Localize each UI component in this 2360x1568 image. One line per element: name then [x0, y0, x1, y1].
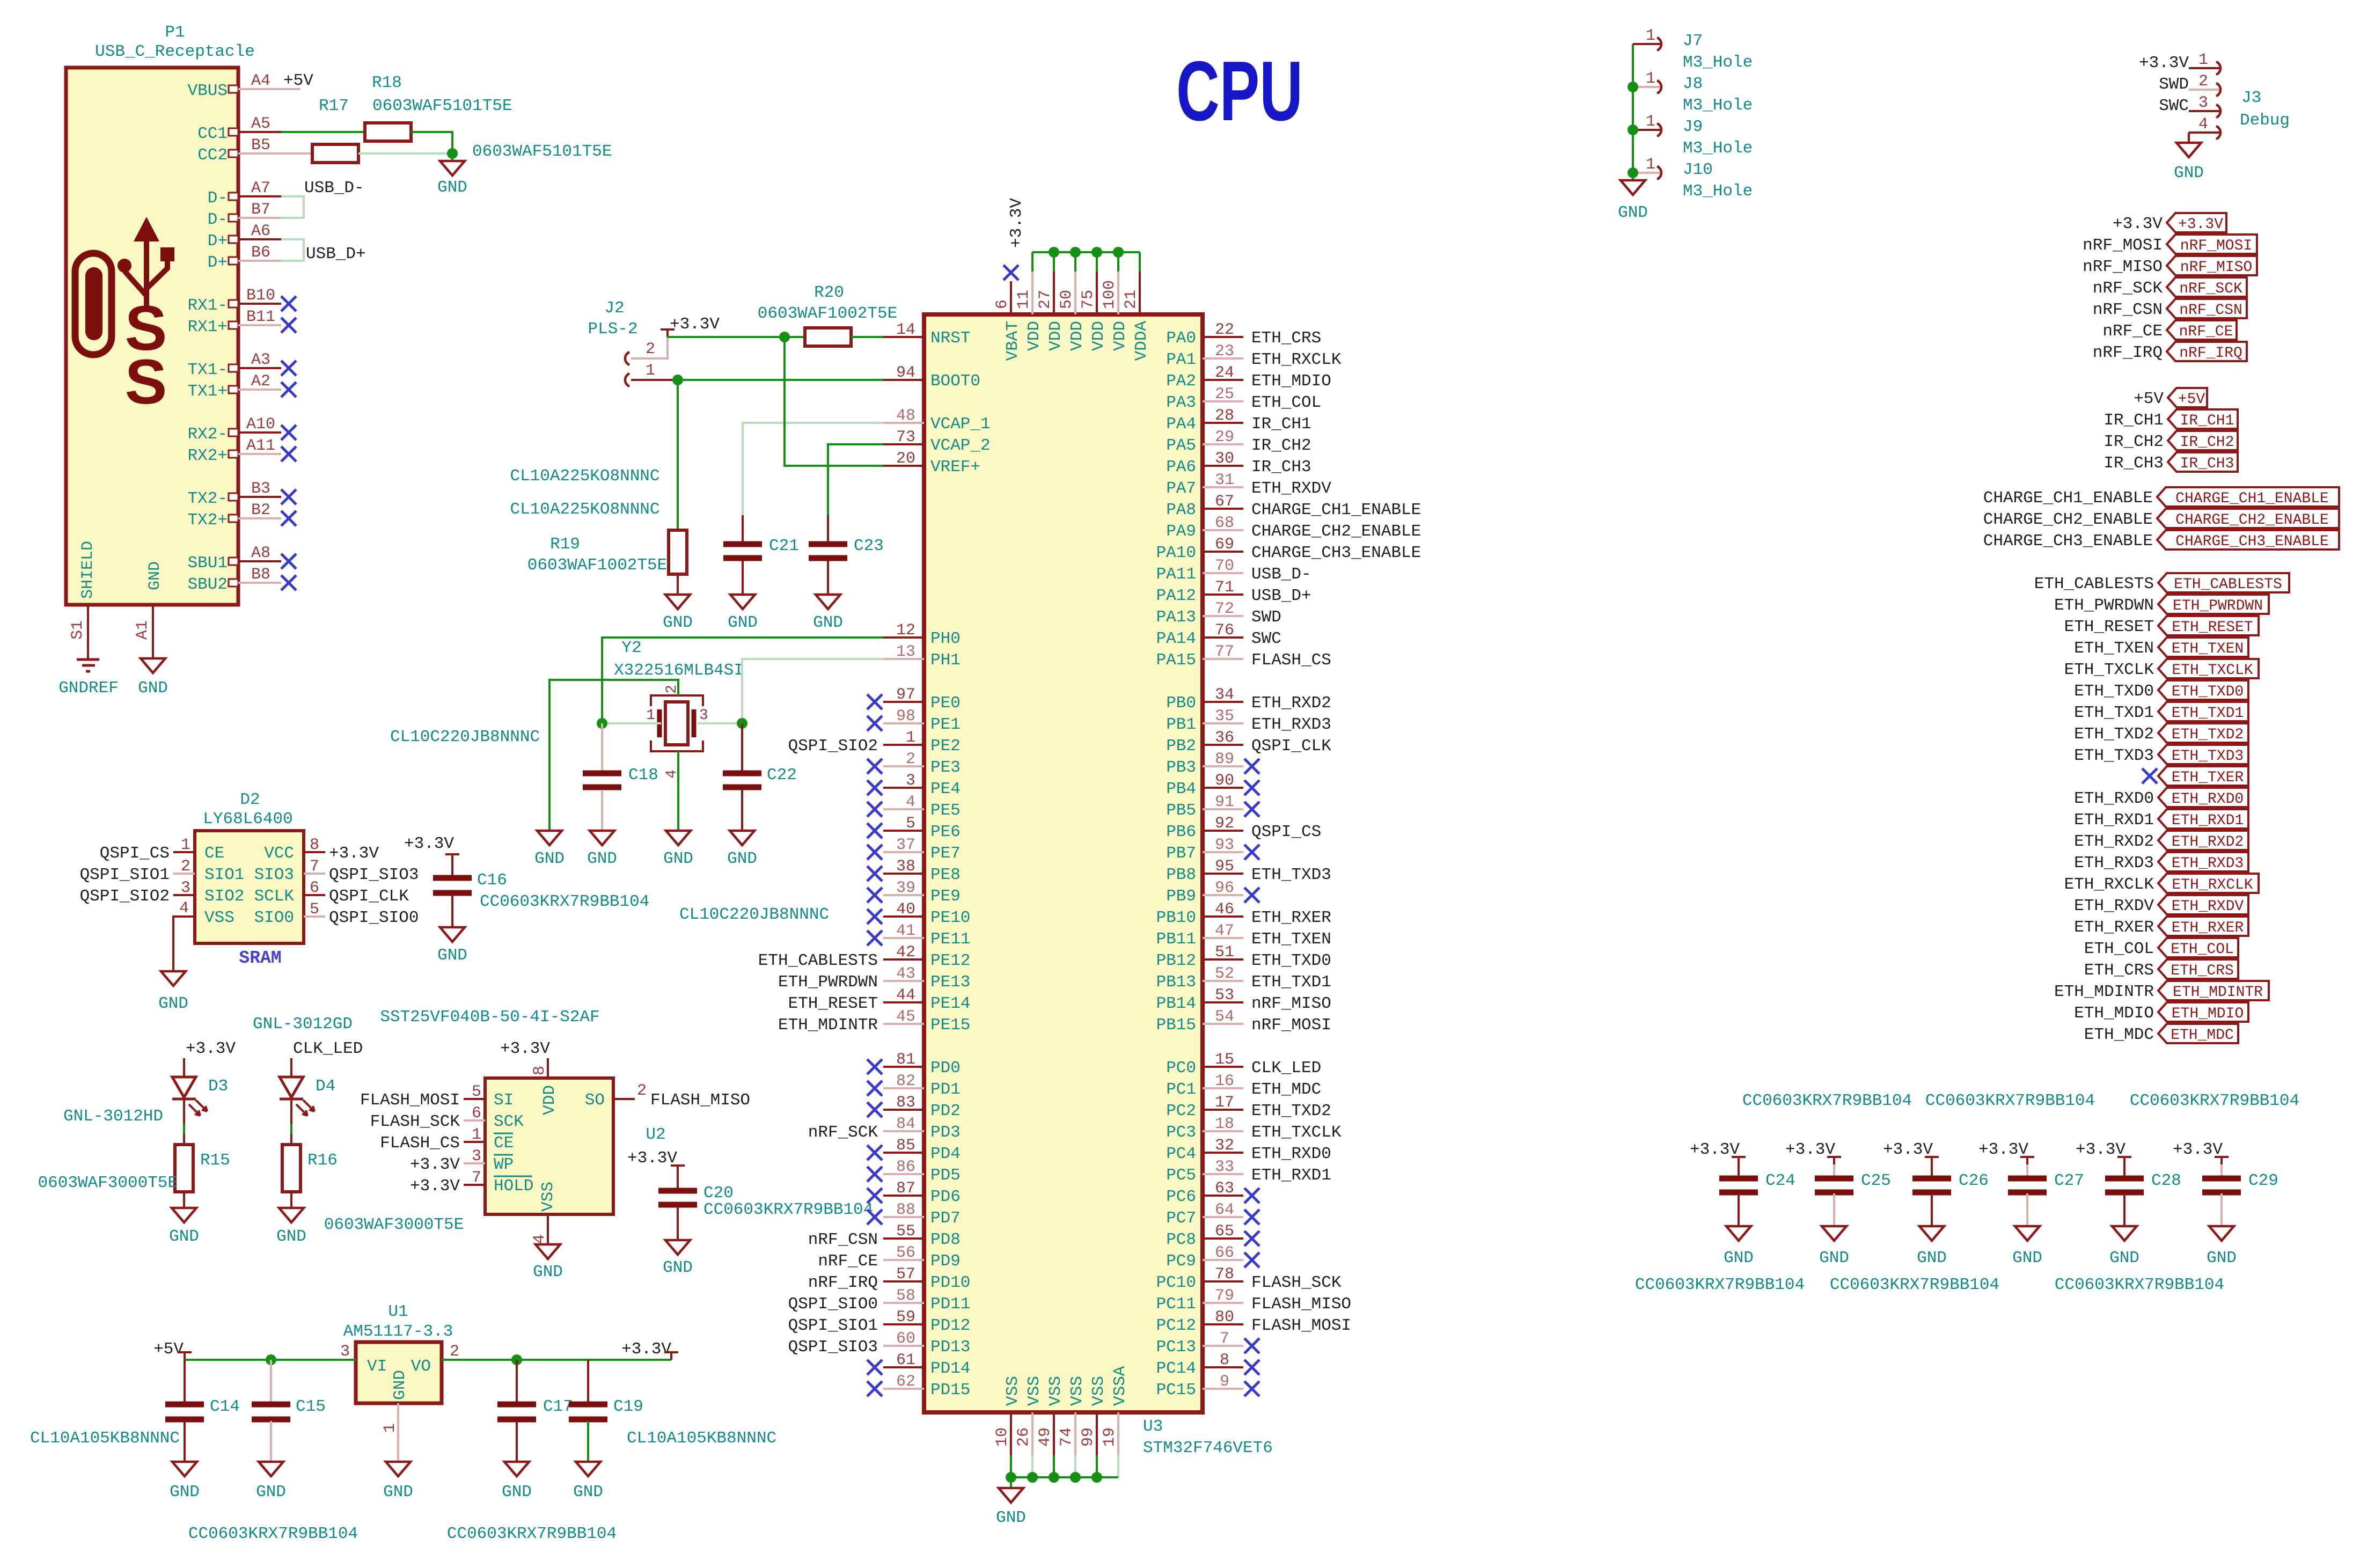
U3 pin 95 PB8 [1203, 873, 1243, 875]
hierarchical label ETH_CABLESTS [2158, 573, 2289, 592]
svg-text:PD14: PD14 [930, 1359, 970, 1378]
capacitor C28 [2105, 1176, 2144, 1182]
svg-text:ETH_RXDV: ETH_RXDV [1251, 479, 1331, 498]
svg-text:CC0603KRX7R9BB104: CC0603KRX7R9BB104 [1635, 1276, 1805, 1294]
svg-text:R18: R18 [372, 74, 402, 92]
U3 pin 54 PB15 [1203, 1023, 1243, 1025]
P1 pin A10 RX2- [229, 429, 238, 436]
U3 pin 85 PD4 [883, 1152, 924, 1154]
hierarchical label ETH_RXD2 [2158, 831, 2248, 850]
svg-text:65: 65 [1215, 1222, 1234, 1241]
D2 pin 2 SIO1 [173, 873, 195, 875]
svg-text:72: 72 [1215, 600, 1234, 618]
U3 pin 56 PD9 [883, 1259, 924, 1261]
U3 pin 68 PA9 [1203, 529, 1243, 531]
svg-text:+3.3V: +3.3V [186, 1039, 236, 1058]
svg-text:FLASH_MISO: FLASH_MISO [1251, 1295, 1351, 1314]
wire C28 to ground [2123, 1193, 2126, 1226]
junction VSS bus 2044 [1091, 1472, 1102, 1483]
svg-text:C24: C24 [1765, 1171, 1795, 1190]
no-connect X at ETH_TXER [2142, 768, 2157, 783]
P1 pin A6 D+ [229, 236, 238, 243]
svg-text:78: 78 [1215, 1265, 1234, 1284]
svg-text:ETH_RXCLK: ETH_RXCLK [1251, 350, 1342, 369]
svg-text:PE13: PE13 [930, 973, 970, 992]
U3 pin 35 PB1 [1203, 722, 1243, 724]
svg-text:GND: GND [587, 849, 617, 868]
U3 pin 52 PB13 [1203, 980, 1243, 982]
connector J7 M3_Hole [1633, 43, 1662, 45]
ground GNDREF symbol [77, 658, 99, 661]
ground GND below C14 [172, 1462, 197, 1476]
capacitor C21 [723, 541, 762, 547]
svg-text:68: 68 [1215, 514, 1234, 532]
svg-text:PC14: PC14 [1156, 1359, 1196, 1378]
hierarchical label CHARGE_CH1_ENABLE [2157, 487, 2339, 507]
svg-text:PC1: PC1 [1166, 1080, 1196, 1099]
svg-text:27: 27 [1036, 290, 1054, 309]
svg-text:nRF_CE: nRF_CE [2102, 322, 2163, 341]
svg-text:IR_CH1: IR_CH1 [2180, 413, 2234, 429]
svg-text:SWD: SWD [2159, 75, 2189, 94]
U3 pin 64 PC7 [1203, 1216, 1243, 1218]
svg-text:D4: D4 [316, 1077, 335, 1096]
svg-text:CC1: CC1 [197, 124, 228, 143]
svg-text:ETH_RXD1: ETH_RXD1 [2074, 811, 2154, 830]
svg-text:PE1: PE1 [930, 715, 961, 734]
hierarchical label CHARGE_CH3_ENABLE [2157, 530, 2339, 549]
svg-text:8: 8 [1220, 1351, 1229, 1369]
svg-text:ETH_RESET: ETH_RESET [788, 994, 878, 1013]
U3 pin 29 PA5 [1203, 443, 1243, 445]
svg-text:USB_D-: USB_D- [1251, 565, 1311, 584]
svg-text:SWD: SWD [1251, 608, 1281, 627]
U3 pin 16 PC1 [1203, 1087, 1243, 1089]
hierarchical label CHARGE_CH2_ENABLE [2157, 509, 2339, 528]
hierarchical label nRF_MOSI [2167, 235, 2257, 254]
LED D3 [172, 1077, 196, 1097]
svg-text:PD13: PD13 [930, 1338, 970, 1357]
svg-text:R20: R20 [814, 283, 844, 302]
svg-text:2: 2 [181, 858, 190, 876]
svg-text:R16: R16 [307, 1151, 338, 1170]
svg-text:+3.3V: +3.3V [670, 315, 720, 334]
svg-text:C18: C18 [628, 766, 658, 785]
wire CLK_LED to D4 [290, 1058, 292, 1077]
svg-text:USB_C_Receptacle: USB_C_Receptacle [95, 42, 255, 61]
U3 pin 17 PC2 [1203, 1109, 1243, 1111]
svg-text:37: 37 [896, 836, 915, 854]
svg-text:USB_D+: USB_D+ [1251, 587, 1311, 605]
U3 pin 84 PD3 [883, 1130, 924, 1132]
svg-text:CLK_LED: CLK_LED [293, 1039, 363, 1058]
U3 pin 74 VSS [1074, 1412, 1076, 1455]
svg-text:C26: C26 [1959, 1171, 1989, 1190]
svg-text:0603WAF5101T5E: 0603WAF5101T5E [472, 142, 612, 161]
U3 pin 32 PC4 [1203, 1152, 1243, 1154]
P1 pin B10 RX1- [229, 300, 238, 307]
svg-text:PC7: PC7 [1166, 1209, 1196, 1228]
ground GND below P1 [141, 658, 165, 673]
svg-text:+3.3V: +3.3V [329, 844, 379, 863]
U3 pin 86 PD5 [883, 1173, 924, 1175]
U3 pin 79 PC11 [1203, 1302, 1243, 1304]
wire PH0 to crystal pin1 [602, 638, 883, 723]
U3 pin 11 VDD [1031, 272, 1034, 314]
svg-text:nRF_MISO: nRF_MISO [1251, 994, 1331, 1013]
svg-text:QSPI_CS: QSPI_CS [1251, 823, 1321, 841]
svg-text:PE8: PE8 [930, 866, 961, 884]
svg-text:41: 41 [896, 922, 915, 940]
ground GND crystal pin2 [537, 831, 562, 845]
svg-text:ETH_MDIO: ETH_MDIO [1251, 372, 1331, 391]
svg-text:nRF_MISO: nRF_MISO [2083, 258, 2163, 276]
svg-text:16: 16 [1215, 1072, 1234, 1090]
junction VSS bus 1884 [1006, 1472, 1016, 1483]
svg-text:RX2+: RX2+ [188, 446, 228, 465]
wire crystal pin4 to ground [677, 751, 679, 831]
svg-text:PB1: PB1 [1166, 715, 1196, 734]
capacitor C16 [433, 875, 472, 881]
svg-text:ETH_RXCLK: ETH_RXCLK [2172, 877, 2253, 893]
svg-text:IR_CH3: IR_CH3 [2104, 454, 2164, 473]
P1 pin A11 RX2+ [229, 450, 238, 458]
wire USB_D- loop [281, 196, 304, 218]
ground GND below J3 [2176, 143, 2201, 157]
svg-text:PA3: PA3 [1166, 393, 1196, 412]
ground GND below D2 [161, 971, 186, 986]
wire crystal pin3 to C22 [741, 723, 743, 773]
P1 pin B8 SBU2 [229, 579, 238, 587]
svg-text:PD7: PD7 [930, 1209, 961, 1228]
svg-text:5: 5 [472, 1083, 481, 1101]
svg-text:PC4: PC4 [1166, 1145, 1196, 1163]
svg-text:1: 1 [1646, 113, 1655, 131]
svg-text:GND: GND [996, 1508, 1026, 1527]
U3 pin 87 PD6 [883, 1195, 924, 1197]
U3 pin 59 PD12 [883, 1323, 924, 1325]
svg-text:PE12: PE12 [930, 951, 970, 970]
svg-text:PB5: PB5 [1166, 801, 1196, 820]
svg-text:D2: D2 [240, 790, 260, 809]
svg-text:95: 95 [1215, 858, 1234, 876]
svg-text:91: 91 [1215, 793, 1234, 811]
svg-text:76: 76 [1215, 621, 1234, 640]
svg-text:+3.3V: +3.3V [500, 1039, 550, 1058]
resistor R15 [175, 1145, 193, 1192]
ground GND below C24 [1726, 1226, 1751, 1241]
svg-text:PB2: PB2 [1166, 737, 1196, 756]
svg-text:GND: GND [813, 613, 843, 632]
wire junction to C17 [516, 1360, 518, 1404]
IC U3 STM32F746VET6 body [924, 314, 1203, 1412]
svg-text:CL10C220JB8NNNC: CL10C220JB8NNNC [679, 905, 829, 924]
svg-text:ETH_TXD1: ETH_TXD1 [2172, 705, 2244, 722]
svg-text:77: 77 [1215, 643, 1234, 661]
svg-text:R17: R17 [319, 97, 349, 115]
ground GND below C29 [2209, 1226, 2234, 1241]
svg-text:C22: C22 [767, 766, 797, 785]
svg-text:9: 9 [1220, 1373, 1229, 1391]
wire CC1 to R18 [281, 131, 365, 133]
svg-text:A6: A6 [251, 222, 270, 240]
svg-text:QSPI_SIO3: QSPI_SIO3 [329, 866, 419, 884]
svg-text:A1: A1 [134, 620, 152, 640]
svg-text:SHIELD: SHIELD [79, 541, 97, 599]
svg-text:PB12: PB12 [1156, 951, 1196, 970]
svg-text:VSS: VSS [204, 908, 234, 927]
svg-text:U1: U1 [388, 1302, 408, 1321]
U2 pin 5 SI [464, 1098, 485, 1100]
svg-text:PA2: PA2 [1166, 372, 1196, 391]
svg-text:ETH_TXD1: ETH_TXD1 [1251, 973, 1331, 992]
wire CC2 to R17 [238, 152, 312, 155]
U3 pin 33 PC5 [1203, 1173, 1243, 1175]
wire bus to ground [1632, 173, 1634, 180]
svg-text:VDD: VDD [1025, 321, 1044, 351]
svg-text:GND: GND [728, 613, 758, 632]
svg-text:TX2+: TX2+ [188, 511, 228, 530]
svg-text:ETH_RXD2: ETH_RXD2 [2172, 834, 2244, 851]
U3 pin 40 PE10 [883, 915, 924, 918]
svg-text:GND: GND [727, 849, 757, 868]
svg-text:ETH_RXER: ETH_RXER [1251, 908, 1331, 927]
U3 pin 78 PC10 [1203, 1280, 1243, 1283]
hierarchical label ETH_MDIO [2158, 1002, 2248, 1022]
U3 pin 99 VSS [1096, 1412, 1098, 1455]
wire +3.3V to C26 [1931, 1164, 1933, 1178]
wire C27 to ground [2026, 1193, 2028, 1226]
U3 pin 19 VSSA [1117, 1412, 1119, 1455]
U3 pin 6 VBAT [1010, 281, 1012, 314]
IC U2 SST25VF040B body [485, 1078, 613, 1214]
P1 pin B5 CC2 [229, 150, 238, 157]
ground GND below R16 [279, 1208, 304, 1222]
svg-text:VSSA: VSSA [1111, 1366, 1130, 1406]
ground GND below C27 [2015, 1226, 2040, 1241]
junction VSS bus 1924 [1027, 1472, 1038, 1483]
svg-text:87: 87 [896, 1179, 915, 1198]
svg-text:SCLK: SCLK [254, 887, 295, 906]
svg-text:QSPI_SIO2: QSPI_SIO2 [788, 737, 878, 756]
svg-text:PH1: PH1 [930, 651, 961, 670]
svg-text:GND: GND [138, 679, 168, 698]
svg-text:ETH_MDIO: ETH_MDIO [2172, 1006, 2244, 1022]
svg-text:VSS: VSS [1003, 1376, 1022, 1406]
wire +3.3V VDD bus [1032, 251, 1140, 253]
svg-text:IR_CH2: IR_CH2 [2104, 433, 2164, 451]
svg-text:ETH_RXD3: ETH_RXD3 [2074, 854, 2154, 873]
U3 pin 88 PD7 [883, 1216, 924, 1218]
wire C14 to ground [184, 1421, 186, 1462]
power +3.3V flag at J2 [666, 329, 669, 337]
wire D3 to R15 [183, 1099, 185, 1124]
svg-text:FLASH_MISO: FLASH_MISO [650, 1091, 750, 1110]
svg-text:54: 54 [1215, 1008, 1234, 1026]
svg-text:FLASH_MOSI: FLASH_MOSI [360, 1091, 460, 1110]
svg-text:3: 3 [906, 772, 915, 790]
svg-text:C20: C20 [703, 1184, 734, 1203]
svg-text:M3_Hole: M3_Hole [1683, 96, 1753, 115]
svg-text:GNL-3012HD: GNL-3012HD [63, 1107, 163, 1126]
svg-text:CC2: CC2 [197, 146, 228, 165]
U3 pin 91 PB5 [1203, 808, 1243, 810]
svg-text:3: 3 [181, 879, 190, 897]
LED D4 [280, 1077, 303, 1097]
svg-text:ETH_COL: ETH_COL [2171, 941, 2234, 958]
U3 pin 58 PD11 [883, 1302, 924, 1304]
svg-text:ETH_RXDV: ETH_RXDV [2172, 898, 2244, 915]
svg-text:PD6: PD6 [930, 1188, 961, 1206]
svg-text:52: 52 [1215, 965, 1234, 983]
U3 pin 76 PA14 [1203, 636, 1243, 639]
hierarchical label nRF_SCK [2167, 277, 2247, 297]
svg-text:14: 14 [896, 321, 915, 339]
svg-text:D-: D- [208, 210, 228, 229]
J3 pin 1 [2189, 67, 2222, 69]
svg-text:GND: GND [663, 849, 693, 868]
svg-text:11: 11 [1015, 290, 1033, 309]
svg-text:A8: A8 [251, 544, 270, 562]
svg-text:ETH_RXD2: ETH_RXD2 [2074, 832, 2154, 851]
svg-text:ETH_CABLESTS: ETH_CABLESTS [2174, 576, 2282, 593]
svg-text:CPU: CPU [1176, 44, 1303, 138]
svg-text:SIO0: SIO0 [254, 908, 294, 927]
svg-text:QSPI_SIO1: QSPI_SIO1 [80, 866, 170, 884]
svg-text:RX1-: RX1- [188, 296, 228, 315]
svg-text:ETH_TXD0: ETH_TXD0 [2172, 684, 2244, 700]
svg-text:VSS: VSS [1068, 1376, 1087, 1406]
U2 pin 7 HOLD [464, 1184, 485, 1186]
svg-text:21: 21 [1122, 290, 1140, 309]
ground GND below C21 [730, 595, 755, 609]
svg-text:PC0: PC0 [1166, 1059, 1196, 1078]
svg-text:HOLD: HOLD [494, 1177, 533, 1196]
svg-text:PD3: PD3 [930, 1123, 961, 1142]
svg-text:nRF_CE: nRF_CE [2179, 324, 2233, 340]
svg-text:QSPI_SIO1: QSPI_SIO1 [788, 1316, 878, 1335]
svg-text:STM32F746VET6: STM32F746VET6 [1143, 1439, 1273, 1457]
hierarchical label ETH_RXD1 [2158, 809, 2248, 829]
svg-text:79: 79 [1215, 1287, 1234, 1305]
svg-text:PB8: PB8 [1166, 866, 1196, 884]
svg-text:S: S [125, 347, 167, 417]
svg-text:80: 80 [1215, 1308, 1234, 1327]
svg-text:QSPI_CLK: QSPI_CLK [1251, 737, 1331, 756]
svg-text:+3.3V: +3.3V [2178, 216, 2223, 233]
ground GND below C20 [665, 1240, 690, 1255]
svg-text:ETH_MDC: ETH_MDC [1251, 1080, 1321, 1099]
svg-text:0603WAF3000T5E: 0603WAF3000T5E [38, 1174, 178, 1192]
svg-text:CC0603KRX7R9BB104: CC0603KRX7R9BB104 [1925, 1091, 2095, 1110]
svg-text:GND: GND [2174, 164, 2204, 182]
svg-text:PD8: PD8 [930, 1230, 961, 1249]
svg-text:B8: B8 [251, 566, 270, 584]
svg-text:CL10A225KO8NNNC: CL10A225KO8NNNC [510, 500, 659, 519]
svg-text:45: 45 [896, 1008, 915, 1026]
svg-text:ETH_RXER: ETH_RXER [2172, 920, 2244, 936]
svg-text:VCAP_1: VCAP_1 [930, 415, 991, 434]
svg-text:98: 98 [896, 707, 915, 726]
svg-text:USB_D+: USB_D+ [306, 245, 366, 263]
svg-text:ETH_CABLESTS: ETH_CABLESTS [758, 951, 878, 970]
svg-text:nRF_IRQ: nRF_IRQ [808, 1273, 878, 1292]
svg-text:PA6: PA6 [1166, 458, 1196, 477]
svg-text:PD5: PD5 [930, 1166, 961, 1185]
U2 pin 3 WP [464, 1162, 485, 1164]
svg-text:PD10: PD10 [930, 1273, 970, 1292]
wire +5V to U1 VI pin 3 [185, 1359, 356, 1361]
ground GND below C26 [1919, 1226, 1944, 1241]
svg-text:C28: C28 [2151, 1171, 2181, 1190]
svg-text:PA9: PA9 [1166, 522, 1196, 541]
svg-text:U3: U3 [1143, 1417, 1163, 1436]
svg-text:GND: GND [276, 1227, 306, 1246]
U3 pin 42 PE12 [883, 958, 924, 961]
svg-text:SO: SO [585, 1091, 605, 1110]
svg-text:D+: D+ [208, 253, 228, 272]
svg-text:GND: GND [1618, 203, 1648, 222]
svg-text:ETH_PWRDWN: ETH_PWRDWN [2054, 596, 2154, 615]
IC D2 LY68L6400 body [195, 831, 304, 943]
svg-text:7: 7 [310, 858, 319, 876]
svg-text:QSPI_SIO0: QSPI_SIO0 [329, 908, 419, 927]
svg-text:ETH_TXEN: ETH_TXEN [2172, 641, 2244, 657]
svg-text:47: 47 [1215, 922, 1234, 940]
svg-text:1: 1 [1646, 70, 1655, 88]
wire J2 pin2 to +3.3V [631, 337, 668, 358]
ground GND below C16 [440, 927, 465, 942]
svg-text:VDD: VDD [1068, 321, 1087, 351]
svg-text:GNL-3012GD: GNL-3012GD [253, 1015, 353, 1034]
svg-text:ETH_TXD3: ETH_TXD3 [2172, 748, 2244, 765]
svg-text:WP: WP [494, 1155, 514, 1174]
svg-text:48: 48 [896, 407, 915, 425]
svg-text:PB4: PB4 [1166, 780, 1196, 798]
svg-text:SBU2: SBU2 [188, 575, 228, 594]
svg-text:PE0: PE0 [930, 694, 961, 713]
wire R15 to ground [183, 1192, 185, 1208]
wire VCAP_2 to C23 [828, 444, 883, 515]
svg-text:FLASH_CS: FLASH_CS [380, 1134, 460, 1153]
U3 pin 46 PB10 [1203, 915, 1243, 918]
P1 pin A7 D- [229, 193, 238, 200]
svg-text:GND: GND [1819, 1249, 1849, 1267]
svg-text:C16: C16 [477, 871, 507, 890]
svg-text:PE2: PE2 [930, 737, 961, 756]
svg-text:6: 6 [993, 299, 1012, 309]
svg-text:J9: J9 [1683, 118, 1703, 136]
U3 pin 57 PD10 [883, 1280, 924, 1283]
svg-text:VBUS: VBUS [188, 82, 228, 100]
U3 pin 38 PE8 [883, 873, 924, 875]
svg-text:43: 43 [896, 965, 915, 983]
svg-text:85: 85 [896, 1137, 915, 1155]
svg-text:QSPI_CLK: QSPI_CLK [329, 887, 409, 906]
svg-text:PE3: PE3 [930, 758, 961, 777]
svg-text:ETH_RXD3: ETH_RXD3 [1251, 715, 1331, 734]
junction C17 node [511, 1354, 522, 1365]
wire +3.3V to C28 [2123, 1164, 2126, 1178]
U2 pin 6 SCK [464, 1119, 485, 1122]
svg-text:A10: A10 [246, 415, 275, 434]
svg-text:PD2: PD2 [930, 1102, 961, 1120]
svg-text:CHARGE_CH2_ENABLE: CHARGE_CH2_ENABLE [2175, 512, 2329, 529]
svg-text:53: 53 [1215, 986, 1234, 1005]
svg-text:17: 17 [1215, 1094, 1234, 1112]
svg-text:62: 62 [896, 1373, 915, 1391]
wire R18 to junction [411, 132, 452, 153]
